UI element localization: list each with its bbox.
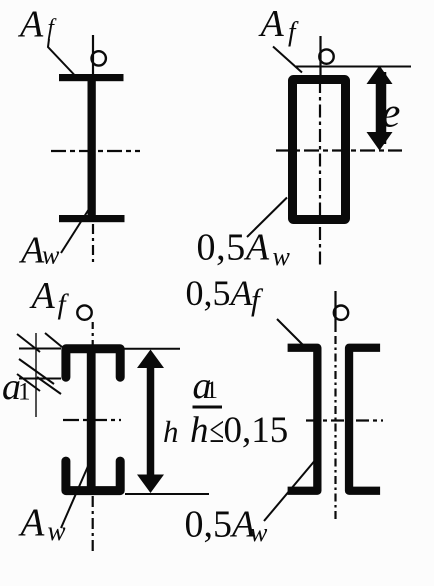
a1 dimension line upper BL	[19, 348, 61, 350]
centerline vertical upper BL	[92, 322, 94, 345]
svg-text:0,5A: 0,5A	[185, 504, 257, 546]
a1 tick 4	[17, 374, 40, 391]
centerline horizontal BL	[63, 419, 121, 421]
a1 tick 5	[37, 377, 61, 394]
box outline TR	[293, 80, 346, 220]
top hat (flange+lips) BL	[66, 349, 120, 377]
svg-text:w: w	[42, 241, 60, 270]
svg-text:A: A	[258, 3, 285, 45]
node circle TL	[92, 51, 106, 65]
web TL	[88, 75, 96, 222]
a1 dimension line lower BL	[19, 378, 61, 380]
centerline vertical BR	[334, 336, 336, 520]
leader Af TR	[273, 47, 302, 73]
svg-text:w: w	[250, 518, 268, 547]
svg-text:0,15: 0,15	[224, 410, 289, 451]
centerline horizontal TL	[51, 150, 140, 152]
node marker line TL	[92, 35, 94, 75]
centerline vertical lower BL	[92, 496, 94, 552]
svg-text:e: e	[382, 90, 401, 137]
a1 tick 2	[45, 333, 62, 347]
left channel BR	[288, 348, 318, 491]
svg-text:≤: ≤	[210, 409, 225, 450]
svg-text:1: 1	[18, 379, 31, 406]
top flange TL	[59, 74, 124, 81]
extension line top TR	[296, 66, 411, 68]
svg-text:w: w	[48, 516, 66, 546]
leader 0,5Aw TR	[247, 198, 287, 238]
right channel BR	[349, 348, 380, 491]
node circle BR	[334, 306, 348, 320]
node circle TR	[319, 49, 333, 63]
svg-text:A: A	[18, 230, 45, 272]
centerline horizontal TR	[276, 149, 402, 151]
svg-text:0,5A: 0,5A	[197, 227, 270, 269]
svg-text:h: h	[163, 414, 179, 449]
leader Aw TL	[61, 209, 89, 253]
extension line top right BL	[123, 348, 181, 350]
leader Aw BL	[61, 457, 92, 528]
dimension h arrow BL	[147, 356, 155, 486]
web BL	[87, 345, 96, 495]
a1 extension vertical BL	[35, 333, 37, 417]
svg-text:A: A	[18, 501, 45, 544]
svg-text:w: w	[273, 242, 291, 271]
node marker line TR	[319, 36, 321, 76]
extension line bottom right BL	[125, 493, 209, 495]
leader Af TL	[48, 39, 74, 75]
svg-text:h: h	[190, 410, 209, 451]
a1 tick 1	[17, 334, 40, 352]
svg-text:A: A	[29, 275, 56, 317]
node marker line BR	[334, 291, 336, 332]
leader 0,5Aw BR	[264, 458, 317, 521]
bottom flange TL	[59, 215, 125, 222]
centerline vertical below TL	[92, 224, 94, 266]
centerline vertical TR	[319, 80, 321, 268]
a1 tick 3	[19, 359, 54, 384]
node circle BL	[77, 305, 91, 319]
bottom hat (flange+lips) BL	[66, 461, 120, 491]
svg-text:0,5A: 0,5A	[186, 273, 254, 313]
dimension e arrow TR	[376, 72, 387, 144]
leader 0,5Af BR	[277, 319, 303, 345]
fraction bar	[193, 406, 223, 409]
centerline horizontal BR	[306, 419, 383, 421]
svg-text:A: A	[17, 3, 44, 45]
svg-text:1: 1	[206, 377, 219, 404]
